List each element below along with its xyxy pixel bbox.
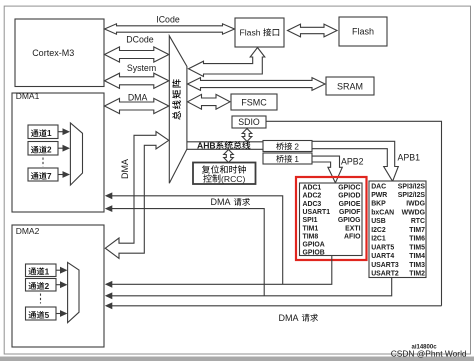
funnel DMA2 [68,262,79,322]
arrow DMA2 CH5 to funnel [56,313,61,315]
svg-text:RTC: RTC [411,218,425,225]
svg-text:DMA: DMA [279,313,299,323]
svg-text:System: System [127,63,156,73]
svg-text:AHB: AHB [197,141,216,151]
svg-text:SRAM: SRAM [337,82,363,92]
svg-text:AFIO: AFIO [344,233,361,240]
svg-text:IWDG: IWDG [406,201,425,208]
svg-text:I2C2: I2C2 [371,227,386,234]
svg-text:ICode: ICode [156,15,180,25]
svg-text:TIM1: TIM1 [303,225,319,232]
wire SDIO rail to DMA2 [112,305,442,307]
svg-text:Flash: Flash [240,28,261,38]
arrow DMA2 CH1 to funnel [56,269,61,271]
channel box DMA1 CH7 [28,168,58,181]
arrow AHB - RCC [224,150,234,163]
svg-text:Cortex-M3: Cortex-M3 [32,48,74,58]
svg-text:TIM5: TIM5 [409,244,425,251]
bent arrow DMA2 - bus matrix [105,132,169,259]
wire branch up to DMA1 request 2 [112,209,264,296]
arrow CH2 to funnel [58,147,63,149]
svg-text:SPI3/I2S: SPI3/I2S [398,183,426,190]
svg-text:ai14800c: ai14800c [412,345,438,351]
svg-text:DMA: DMA [211,197,231,207]
svg-text:EXTI: EXTI [345,225,360,232]
block bridge2 桥接2 [263,141,312,152]
block DMA2 [12,225,104,347]
red highlight box [296,177,367,260]
DCode bus arrow [105,47,169,62]
block Flash [339,17,387,46]
svg-text:DAC: DAC [371,183,386,190]
bus arrow bridge1 to APB2 [312,156,342,183]
block bridge1 桥接1 [263,153,312,164]
svg-text:TIM2: TIM2 [409,271,425,278]
channel box DMA1 CH1 [28,125,58,139]
svg-text:bxCAN: bxCAN [371,209,394,216]
arrow matrix - SRAM [188,78,326,91]
svg-text:2: 2 [294,142,299,151]
svg-text:DMA: DMA [120,159,130,179]
arrow CH7 to funnel [58,174,63,176]
block SDIO [232,116,266,128]
svg-text:DMA: DMA [128,93,148,103]
svg-text:GPIOC: GPIOC [338,185,360,192]
svg-text:USART1: USART1 [303,209,331,216]
svg-text:GPIOA: GPIOA [303,242,325,249]
svg-text:TIM6: TIM6 [409,236,425,243]
svg-text:TIM3: TIM3 [409,262,425,269]
gray watermark bar [0,357,474,361]
svg-text:1: 1 [47,129,52,138]
arrow SDIO - AHB [242,129,252,142]
label 通道7 [31,172,39,179]
svg-text:GPIOD: GPIOD [338,193,360,200]
label 通道1 [31,130,39,137]
block Flash interface [235,18,284,47]
svg-text:DMA2: DMA2 [16,226,40,236]
bus arrow bridge2 to APB1 [312,141,398,181]
block RCC 复位和时钟控制 [193,163,256,185]
svg-text:GPIOG: GPIOG [338,217,361,224]
label 通道5 [28,311,36,318]
channel box DMA2 CH1 [26,264,57,277]
funnel DMA1 [70,123,82,185]
arrow DMA2 CH2 to funnel [56,284,61,286]
svg-text:2: 2 [47,146,52,155]
ICode bus arrow [105,24,235,34]
svg-text:UART5: UART5 [371,244,394,251]
svg-text:UART4: UART4 [371,253,394,260]
arrow Flash interface - Flash [288,24,338,37]
svg-text:GPIOB: GPIOB [303,250,325,257]
svg-text:ADC2: ADC2 [303,193,322,200]
channel box DMA2 CH2 [26,279,57,292]
svg-text:GPIOE: GPIOE [339,201,361,208]
svg-text:1: 1 [45,267,50,276]
channel box DMA2 CH5 [26,307,57,320]
svg-text:APB2: APB2 [341,157,364,167]
svg-text:TIM7: TIM7 [409,227,425,234]
svg-text:USART2: USART2 [371,271,399,278]
block Cortex-M3 [15,19,104,87]
block APB2 peripherals [300,183,363,256]
svg-text:TIM4: TIM4 [409,253,425,260]
block SRAM [326,77,374,95]
block APB1 peripherals [369,181,426,278]
svg-text:ADC3: ADC3 [303,201,322,208]
svg-text:DCode: DCode [126,35,153,45]
channel box DMA1 CH2 [28,142,58,156]
wire SDIO to right rail [266,121,442,305]
svg-text:FSMC: FSMC [241,98,267,108]
label 通道2 [28,282,36,289]
AHB bus rails [187,141,263,143]
svg-text:SDIO: SDIO [238,117,260,127]
System bus arrow [105,73,169,88]
ellipsis dots DMA1 [42,158,44,167]
DMA bus arrow DMA1-matrix [105,98,169,113]
svg-text:USART3: USART3 [371,262,399,269]
svg-text:WWDG: WWDG [402,209,425,216]
bus matrix shape [169,36,187,183]
block DMA1 [12,93,104,212]
svg-text:APB1: APB1 [398,153,421,163]
wire APB1 box to DMA2 and DMA1 [112,278,392,296]
svg-text:Flash: Flash [352,27,374,37]
svg-text:ADC1: ADC1 [303,185,322,192]
svg-text:TIM8: TIM8 [303,233,319,240]
bent arrow Flash interface - bus matrix [189,48,265,77]
wire branch up to DMA1 request 1 [112,196,283,284]
svg-text:(RCC): (RCC) [221,174,245,184]
wire APB2 box to DMA2 and DMA1 [112,256,332,284]
svg-text:1: 1 [294,155,299,164]
svg-text:SPI2/I2S: SPI2/I2S [398,192,426,199]
svg-text:I2C1: I2C1 [371,236,386,243]
label 通道1 [28,268,36,275]
arrow matrix - FSMC [188,94,231,109]
svg-text:SPI1: SPI1 [303,217,318,224]
svg-text:USB: USB [371,218,386,225]
svg-text:DMA1: DMA1 [16,91,40,101]
label 通道2 [31,146,39,153]
ellipsis dots DMA2 [40,294,42,304]
svg-text:PWR: PWR [371,192,387,199]
svg-text:7: 7 [47,172,52,181]
label 总线矩阵 vertical [172,79,181,120]
arrow CH1 to funnel [58,131,63,133]
block FSMC [231,94,277,110]
svg-text:BKP: BKP [371,201,386,208]
svg-text:5: 5 [45,311,50,320]
svg-text:GPIOF: GPIOF [339,209,360,216]
svg-text:2: 2 [45,282,50,291]
